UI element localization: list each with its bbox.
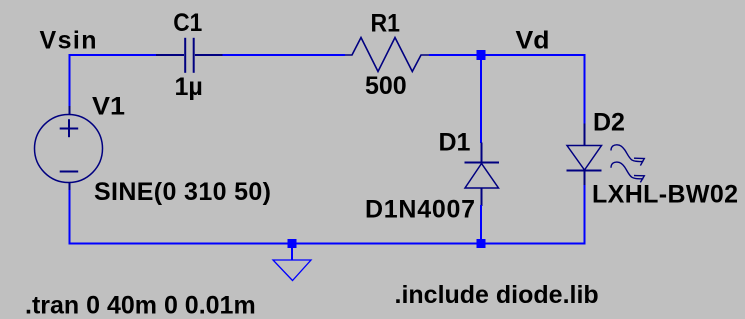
diode D1 xyxy=(465,143,500,207)
svg-text:R1: R1 xyxy=(371,10,401,38)
svg-text:.tran 0 40m 0 0.01m: .tran 0 40m 0 0.01m xyxy=(25,292,256,319)
junction at D1 bottom node xyxy=(477,239,486,248)
wire from R1 to Vd corner xyxy=(429,54,586,56)
resistor R1 xyxy=(345,38,429,72)
LED D2 light arrow 1 xyxy=(611,145,644,166)
ground symbol xyxy=(273,244,311,281)
bottom rail wire xyxy=(69,243,586,245)
svg-text:.include diode.lib: .include diode.lib xyxy=(395,281,599,309)
wire from D1 bottom to bottom rail xyxy=(480,205,482,245)
svg-text:LXHL-BW02: LXHL-BW02 xyxy=(592,181,738,209)
svg-text:D1: D1 xyxy=(439,129,471,157)
wire from D2 bottom to bottom rail corner xyxy=(584,185,586,245)
svg-text:V1: V1 xyxy=(92,93,125,121)
svg-text:D1N4007: D1N4007 xyxy=(365,196,475,224)
wire vertical from V1 bottom to bottom rail xyxy=(69,190,71,245)
svg-text:C1: C1 xyxy=(173,9,202,37)
wire right vertical from Vd corner to D2 xyxy=(584,54,586,124)
wire D1 branch from Vd junction down xyxy=(480,55,482,143)
LED D2 xyxy=(567,124,602,187)
svg-text:SINE(0 310 50): SINE(0 310 50) xyxy=(94,178,271,206)
svg-text:Vsin: Vsin xyxy=(40,27,97,55)
voltage source V1 xyxy=(35,106,103,191)
wire from C1 to R1 xyxy=(223,54,346,56)
capacitor C1 xyxy=(156,38,223,73)
svg-text:500: 500 xyxy=(365,72,407,100)
svg-text:1µ: 1µ xyxy=(175,73,203,101)
junction at ground node xyxy=(288,239,297,248)
junction at Vd node xyxy=(477,50,486,60)
wire vertical from Vsin corner down to V1 top xyxy=(69,54,71,107)
svg-text:Vd: Vd xyxy=(516,27,550,55)
svg-text:D2: D2 xyxy=(593,109,625,137)
LED D2 light arrow 2 xyxy=(611,162,644,182)
wire top horizontal from Vsin corner to C1 left lead xyxy=(69,54,157,56)
